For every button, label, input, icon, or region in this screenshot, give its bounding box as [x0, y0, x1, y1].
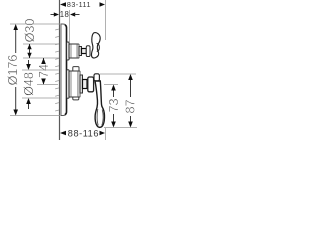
dim 87 — [123, 74, 137, 128]
ext line plate bottom — [10, 115, 60, 117]
upper step ring — [79, 47, 82, 56]
ext line lever axis — [104, 84, 118, 86]
dim 88-116 — [60, 128, 105, 138]
lever bulb shade line — [102, 110, 103, 126]
dim 73 — [107, 85, 121, 128]
cross handle front knob — [97, 43, 100, 51]
wall line — [59, 0, 61, 140]
lever top knob — [94, 74, 99, 81]
lower sleeve — [69, 71, 80, 97]
ext line plate top — [10, 23, 60, 25]
ext line 83-111 right — [105, 0, 107, 40]
upper sleeve rim — [77, 44, 79, 57]
lever inner line — [97, 109, 98, 125]
dim Ø30 — [23, 19, 37, 58]
dim 83-111 — [60, 0, 105, 9]
plate front edge — [65, 25, 67, 115]
svg-text:73: 73 — [107, 98, 121, 112]
ext line Ø30 top — [23, 43, 59, 45]
lever hub — [88, 77, 94, 92]
svg-text:83-111: 83-111 — [67, 0, 91, 9]
dim Ø48 — [22, 60, 36, 109]
upper flange — [67, 42, 70, 60]
lower sleeve bottom tab — [73, 97, 79, 100]
dim 18 — [51, 10, 80, 19]
escutcheon plate — [61, 24, 67, 116]
dim 74 — [37, 58, 51, 85]
svg-text:Ø30: Ø30 — [23, 19, 37, 43]
dim Ø176 — [6, 24, 20, 116]
ext line Ø30 bottom — [23, 57, 59, 59]
lower sleeve top tab — [73, 67, 79, 72]
ext line lever top — [100, 73, 136, 75]
wall hatching — [55, 29, 59, 111]
svg-text:18: 18 — [60, 10, 69, 19]
lower step ring — [80, 75, 83, 93]
lever knob joint — [95, 80, 100, 82]
svg-text:Ø176: Ø176 — [6, 55, 20, 86]
upper stem — [82, 49, 87, 54]
svg-text:88-116: 88-116 — [68, 128, 99, 138]
upper hub — [86, 46, 90, 57]
svg-text:Ø48: Ø48 — [22, 72, 36, 96]
upper cross handle side view — [91, 33, 100, 58]
upper sleeve — [69, 44, 79, 58]
ext line 18 right — [69, 10, 71, 42]
svg-text:87: 87 — [123, 99, 137, 113]
lever handle — [95, 81, 104, 127]
ext line 88-116 right — [105, 128, 107, 140]
ext line 74 bottom — [37, 84, 58, 86]
ext line Ø48 bottom — [22, 97, 59, 99]
lower flange — [67, 70, 70, 98]
lower stem — [83, 80, 88, 89]
lower sleeve inner line — [70, 71, 72, 97]
ext line Ø48 top — [22, 69, 59, 71]
svg-text:74: 74 — [37, 64, 51, 78]
ext line lever bottom — [104, 127, 137, 129]
lower sleeve rim — [78, 71, 80, 96]
upper sleeve inner line — [70, 44, 72, 58]
